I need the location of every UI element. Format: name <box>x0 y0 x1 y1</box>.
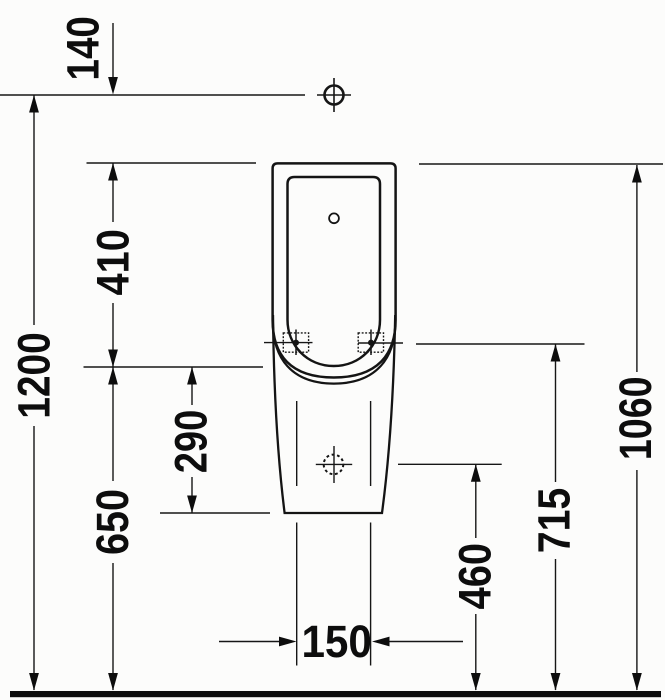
svg-text:150: 150 <box>301 616 372 667</box>
svg-text:460: 460 <box>449 543 500 610</box>
svg-text:1060: 1060 <box>610 377 661 461</box>
svg-text:290: 290 <box>166 410 217 474</box>
svg-text:650: 650 <box>87 489 138 555</box>
svg-text:410: 410 <box>87 229 138 295</box>
svg-text:715: 715 <box>528 488 579 554</box>
svg-text:140: 140 <box>57 16 108 80</box>
svg-text:1200: 1200 <box>8 332 59 419</box>
